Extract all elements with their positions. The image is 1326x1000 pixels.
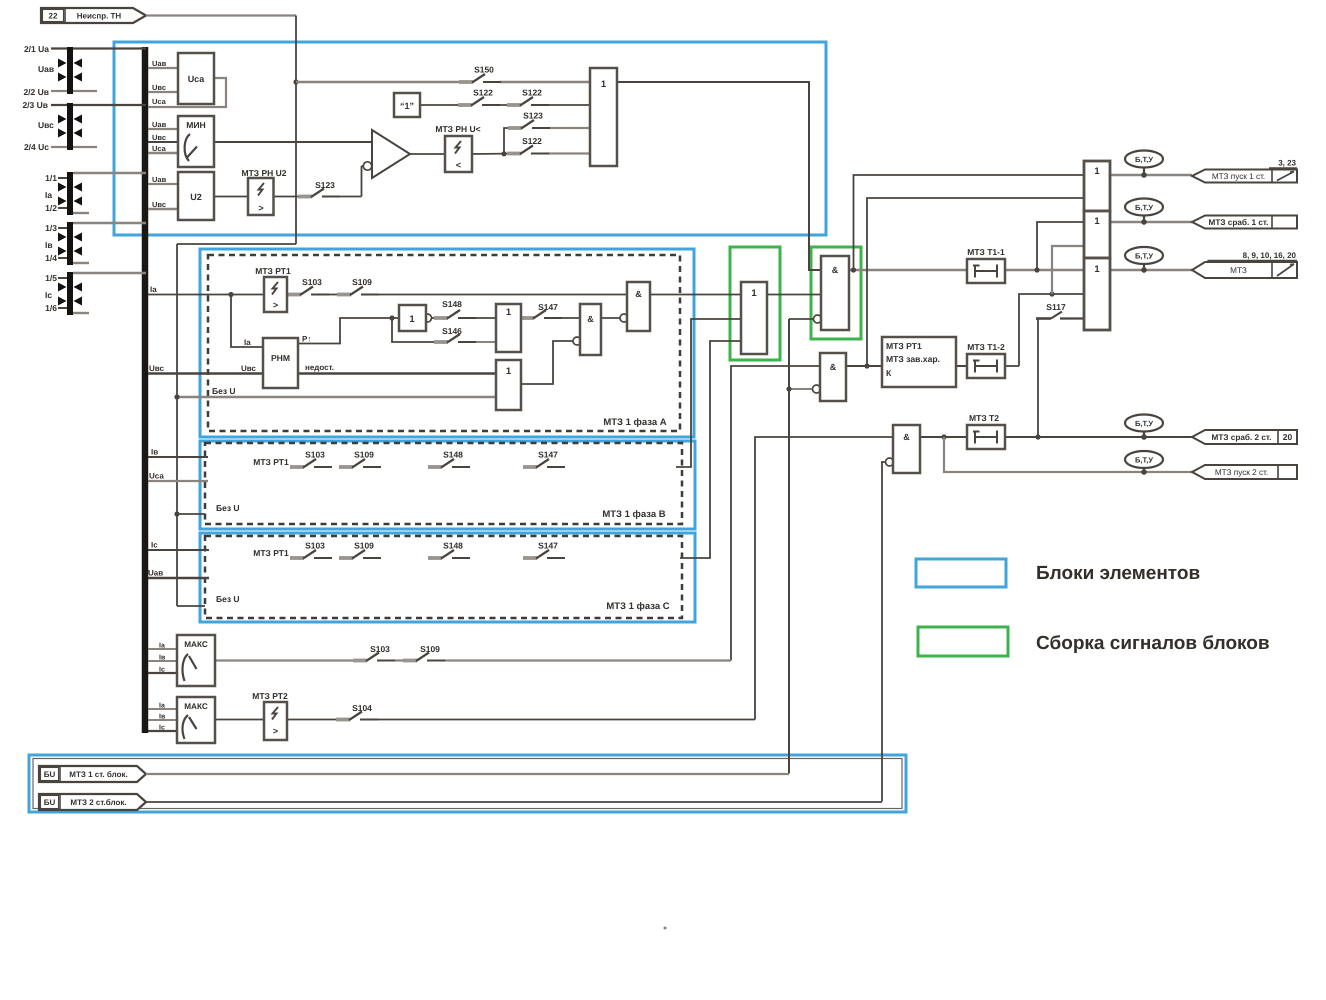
wire: Bez U line phase A: [177, 396, 496, 398]
AND gate DD2: [820, 353, 846, 401]
wire: Bez U stub phase B: [177, 513, 205, 515]
svg-text:Iа: Iа: [159, 643, 165, 650]
svg-text:К: К: [886, 368, 892, 378]
wire: branch up to S123: [504, 128, 521, 154]
svg-text:Сборка сигналов блоков: Сборка сигналов блоков: [1036, 633, 1270, 654]
svg-text:МТЗ: МТЗ: [1230, 266, 1247, 275]
switch S122 (third): [507, 136, 549, 154]
junction: Bez U tap phase B: [174, 511, 179, 516]
OR gate D3 cell2: [1084, 211, 1110, 258]
wire: vertical drop of Neispr.TN net x=296: [295, 16, 297, 245]
wire: OR DA2 output via S147 to AND DA4: [521, 317, 533, 319]
svg-text:U2: U2: [190, 192, 202, 202]
timer T1-2: [967, 354, 1005, 378]
svg-text:S147: S147: [538, 541, 558, 551]
signal oval B,T,U (MTZ): [1125, 247, 1163, 273]
wire: RT2 output via S104: [287, 719, 349, 721]
wire: Bez U stub phase C: [177, 605, 205, 607]
svg-text:Iа: Iа: [150, 285, 157, 294]
inverter circle DA1 output: [424, 314, 432, 322]
wire: blocking net 1 to DD1 inverting input: [789, 318, 814, 320]
wire: AND DD2 output through curve box and timer T1-2: [846, 365, 967, 367]
wire: Neispr.TN net to Bez-U rail: [177, 243, 296, 245]
svg-text:1: 1: [1094, 264, 1100, 275]
svg-text:МТЗ 1 ст. блок.: МТЗ 1 ст. блок.: [69, 770, 127, 779]
inverter circle DD3 input: [886, 458, 894, 466]
wire: U2 block to MTZ RN U2 relay: [214, 196, 248, 198]
wire: bus tap Ia to phase A: [148, 294, 300, 296]
wire: AND DD1 output to timer T1-1 and up to output OR: [849, 269, 967, 271]
switch S147 phase C: [523, 541, 565, 559]
wire: RT2/S104 line up to AND DD3: [755, 437, 893, 720]
wire: OR D1 output to AND DD1: [617, 82, 821, 270]
wire: output OR cell3 to flag MTZ: [1110, 269, 1192, 271]
AND gate DD3: [893, 425, 920, 473]
AND gate DA5: [627, 282, 650, 331]
wire: bus tap Uab to Uca-calc: [148, 67, 178, 69]
svg-text:Uвс: Uвс: [149, 364, 164, 373]
wire: MIN block output to amplifier A1: [214, 141, 372, 143]
switch S148 phase C: [428, 541, 470, 559]
svg-text:МТЗ пуск 1 ст.: МТЗ пуск 1 ст.: [1212, 172, 1265, 181]
block MTZ RT1 dependent characteristic: [882, 337, 956, 387]
wire: bus tap Ic phase C: [148, 549, 209, 551]
block frame: MTZ phase A block (blue): [200, 249, 694, 437]
svg-text:Iа: Iа: [159, 703, 165, 710]
inner gray frame of bottom block: [33, 759, 902, 809]
svg-text:S104: S104: [352, 703, 372, 713]
svg-text:МТЗ РТ1: МТЗ РТ1: [886, 341, 922, 351]
svg-text:МАКС: МАКС: [184, 702, 208, 711]
junction: blocking net 1 branch: [786, 386, 791, 391]
wire: big OR D2 output to AND DD1: [767, 294, 821, 296]
wire: NOT DA1 output via S148 to OR DA2: [431, 317, 447, 319]
svg-text:недост.: недост.: [305, 363, 334, 372]
svg-text:Iа: Iа: [45, 190, 52, 200]
OR gate D3 cell1: [1084, 161, 1110, 211]
svg-text:1/6: 1/6: [45, 303, 57, 313]
svg-text:Неиспр. ТН: Неиспр. ТН: [77, 12, 122, 21]
output flag MTZ pusk 1 st: [1192, 159, 1297, 183]
svg-text:2/3 Uв: 2/3 Uв: [22, 100, 48, 110]
wire: S117 riser: [1037, 319, 1039, 438]
svg-text:S150: S150: [474, 65, 494, 75]
OR gate DA2: [496, 304, 521, 352]
svg-text:Uса: Uса: [152, 97, 167, 106]
wire: branch up to output OR cell 2: [1037, 222, 1084, 270]
wire: blocking net 1 to DD2 inverting input: [789, 388, 813, 390]
svg-text:Б,Т,У: Б,Т,У: [1135, 455, 1153, 464]
svg-text:S146: S146: [442, 326, 462, 336]
junction: Ia branch to RNM: [228, 292, 233, 297]
junction: y294 rail branch: [1049, 291, 1054, 296]
switch S109 phase C: [339, 541, 381, 559]
wire: MAKS1 S103/S109 line up to AND DD2: [731, 366, 820, 661]
svg-text:Uав: Uав: [152, 120, 167, 129]
legend green box: [918, 627, 1008, 656]
wire: bus taps to U2-calc: [148, 183, 178, 185]
legend blue box: [916, 559, 1006, 587]
svg-text:Б,Т,У: Б,Т,У: [1135, 155, 1153, 164]
svg-text:МТЗ РТ1: МТЗ РТ1: [255, 266, 291, 276]
svg-text:Б,Т,У: Б,Т,У: [1135, 203, 1153, 212]
svg-text:S109: S109: [420, 644, 440, 654]
svg-text:МТЗ РТ1: МТЗ РТ1: [253, 548, 289, 558]
svg-text:2/2 Uв: 2/2 Uв: [23, 87, 49, 97]
signal oval B,T,U (pusk 2): [1125, 451, 1163, 475]
svg-text:Uса: Uса: [188, 74, 206, 84]
svg-text:20: 20: [1283, 432, 1293, 442]
junction: DD1 output branch: [851, 267, 856, 272]
switch S109 phase B: [339, 450, 381, 468]
switch S123 (lower): [298, 180, 340, 197]
svg-text:Uав: Uав: [152, 175, 167, 184]
svg-text:Iс: Iс: [45, 290, 52, 300]
input flag BU MTZ 2st block: [39, 794, 146, 810]
svg-text:Р↑: Р↑: [302, 335, 311, 344]
svg-text:БU: БU: [44, 770, 56, 779]
block MIN (min voltage selector): [178, 116, 214, 167]
wire: bus tap Ib phase B: [148, 456, 208, 458]
wire: MAKS1 output via S103,S109: [215, 659, 366, 661]
svg-text:МТЗ сраб. 1 ст.: МТЗ сраб. 1 ст.: [1209, 218, 1269, 227]
svg-text:S103: S103: [305, 450, 325, 460]
svg-text:S103: S103: [370, 644, 390, 654]
svg-text:Iв: Iв: [45, 240, 53, 250]
svg-text:S103: S103: [302, 277, 322, 287]
svg-text:МТЗ Т2: МТЗ Т2: [969, 413, 999, 423]
svg-text:&: &: [635, 289, 642, 299]
wire: bus tap Uab phase C: [148, 577, 209, 580]
OR gate D2 (phase collector): [741, 282, 767, 354]
junction: DD2 output branch: [864, 363, 869, 368]
svg-text:МТЗ 1 фаза В: МТЗ 1 фаза В: [602, 509, 665, 520]
output flag MTZ srab 1 st: [1192, 216, 1297, 229]
block frame: bottom blocking-inputs block (blue): [29, 755, 906, 812]
svg-text:S117: S117: [1046, 302, 1066, 312]
switch S148 phase B: [428, 450, 470, 468]
junction: Neispr.TN branch to S150 line: [293, 79, 298, 84]
OR gate D1 (top): [590, 68, 617, 166]
svg-text:МТЗ 2 ст.блок.: МТЗ 2 ст.блок.: [70, 798, 126, 807]
wire: S150 line from x296 to OR D1: [296, 81, 472, 84]
svg-text:1/1: 1/1: [45, 173, 57, 183]
switch S146: [434, 326, 476, 343]
junction: Bez U tap phase A: [174, 394, 179, 399]
svg-text:1: 1: [1094, 216, 1100, 227]
svg-text:S147: S147: [538, 302, 558, 312]
svg-text:МАКС: МАКС: [184, 640, 208, 649]
svg-text:S122: S122: [522, 136, 542, 146]
junction: T2 output to S117: [1035, 434, 1040, 439]
svg-text:Uав: Uав: [152, 59, 167, 68]
wire: RT1 output line through switches to OR D2: [328, 294, 350, 296]
OR gate DA3: [496, 360, 521, 410]
switch S103 phase A: [287, 277, 329, 295]
svg-text:S109: S109: [354, 450, 374, 460]
svg-text:22: 22: [49, 12, 58, 21]
stray mark: [664, 927, 667, 930]
switch S147 phase B: [523, 450, 565, 468]
signal oval B,T,U (pusk 1): [1125, 151, 1163, 178]
input flag BU MTZ 1st block: [39, 766, 146, 782]
wire: const-1 to OR D1 via S122,S122: [420, 104, 471, 106]
switch S104: [336, 703, 378, 720]
const logic 1 box: [394, 93, 420, 117]
signal oval B,T,U (srab 2): [1125, 415, 1163, 440]
block U2 calculator: [178, 172, 214, 220]
wire: blocking net 2 horizontal: [146, 801, 882, 803]
wire: Uca-calc output loop back to bus: [148, 78, 226, 107]
wire: branch down to MTZ pusk 2 st output: [944, 437, 1193, 472]
wire: Bez-U vertical rail x=177: [176, 244, 178, 606]
wire: bus tap Ubc to Uca-calc: [148, 91, 178, 93]
svg-text:Uвс: Uвс: [152, 200, 166, 209]
NOT gate DA1: [399, 305, 426, 331]
wire: timer T1-2 output up to y294 rail: [1005, 365, 1019, 367]
svg-text:Uвс: Uвс: [241, 364, 256, 373]
switch S122 (first): [458, 88, 500, 106]
wire: AND DA4 output to AND DA5 inverting input: [601, 317, 620, 319]
svg-text:Uса: Uса: [149, 472, 164, 481]
current transformer CT3: [58, 272, 146, 315]
svg-text:Iв: Iв: [159, 655, 166, 662]
output flag MTZ: [1192, 251, 1297, 278]
wire: blocking net 1 vertical x789: [788, 319, 790, 774]
wire: phase C exit to big OR D2: [680, 341, 741, 558]
svg-text:S122: S122: [473, 88, 493, 98]
switch S122 (second): [507, 88, 549, 106]
svg-text:МТЗ РН U<: МТЗ РН U<: [435, 124, 480, 134]
wire: bus taps to MAKS1: [148, 648, 177, 650]
svg-text:&: &: [832, 265, 839, 275]
svg-text:>: >: [273, 300, 278, 310]
wire: timer T1-1 output to output OR cell 3: [1005, 269, 1084, 271]
svg-text:>: >: [273, 726, 278, 736]
block RNM (power direction relay): [263, 338, 298, 388]
vertical input bus: [142, 47, 149, 733]
switch S150: [459, 65, 501, 83]
wire: AND DD2 output rail to output OR cell 1: [867, 198, 1084, 366]
svg-text:S122: S122: [522, 88, 542, 98]
svg-text:“1”: “1”: [400, 101, 414, 111]
svg-text:S103: S103: [305, 541, 325, 551]
wire: bus taps to MIN block: [148, 128, 178, 130]
svg-text:Iв: Iв: [159, 714, 166, 721]
voltage transformer VT1 (Uab winding): [51, 47, 146, 94]
block frame: MTZ phase B block (blue): [200, 441, 695, 529]
switch S148 phase A: [434, 299, 476, 319]
wire: amplifier A1 output to MTZ RN U-less relay: [410, 153, 445, 155]
svg-text:1/3: 1/3: [45, 223, 57, 233]
wire: OR DA3 output up to DA4 inverting input: [521, 341, 573, 384]
signal-assembly frame 1 (green): [730, 247, 780, 360]
svg-text:&: &: [830, 362, 837, 372]
switch S103 (MAKS1): [353, 644, 395, 661]
wire: S146 branch: [392, 318, 447, 342]
svg-text:1: 1: [601, 79, 607, 90]
svg-text:МТЗ пуск 2 ст.: МТЗ пуск 2 ст.: [1215, 468, 1268, 477]
block frame: MTZ phase C block (blue): [200, 533, 695, 622]
svg-text:МТЗ РН U2: МТЗ РН U2: [242, 168, 287, 178]
svg-text:S109: S109: [352, 277, 372, 287]
wire: blocking net 2 vertical x882 to DD3 inverting input: [882, 462, 886, 802]
wire: MAKS2 output to RT2: [215, 719, 264, 721]
OR gate D3 cell3: [1084, 258, 1110, 330]
voltage transformer VT2 (Ubc winding): [51, 103, 146, 150]
wire: MTZ RN U2 relay via S123 to A1 inverting input: [274, 196, 312, 198]
AND gate DA4: [580, 304, 601, 355]
switch S117: [1036, 302, 1084, 319]
svg-text:8, 9, 10, 16, 20: 8, 9, 10, 16, 20: [1243, 251, 1297, 260]
wire: bus tap Uca phase B: [148, 480, 208, 482]
wire: phase B exit to big OR D2: [676, 319, 741, 467]
svg-text:Без U: Без U: [216, 594, 240, 604]
svg-text:2/1 Uа: 2/1 Uа: [24, 44, 49, 54]
svg-text:МТЗ 1 фаза А: МТЗ 1 фаза А: [603, 417, 666, 428]
signal-assembly frame 2 (green): [811, 247, 861, 339]
svg-text:1: 1: [1094, 166, 1100, 177]
svg-text:РНМ: РНМ: [271, 353, 290, 363]
wire: output OR cell1 to flag MTZ pusk 1 st: [1110, 174, 1192, 176]
junction: node after RN U-less relay: [501, 151, 506, 156]
svg-text:1/2: 1/2: [45, 203, 57, 213]
svg-text:Uвс: Uвс: [152, 83, 166, 92]
svg-text:Uвс: Uвс: [152, 133, 166, 142]
svg-text:Iс: Iс: [159, 725, 165, 732]
op-block MTZ RN U-less relay: [445, 136, 472, 172]
switch S147 phase A: [520, 302, 562, 319]
amplifier A1 (comparator triangle): [372, 130, 410, 178]
current transformer CT2: [58, 222, 146, 265]
svg-text:Uвс: Uвс: [38, 120, 54, 130]
svg-text:3, 23: 3, 23: [1278, 159, 1296, 168]
current transformer CT1: [58, 172, 146, 215]
svg-text:S148: S148: [443, 450, 463, 460]
svg-text:Без U: Без U: [216, 503, 240, 513]
svg-text:Iс: Iс: [159, 667, 165, 674]
svg-text:МТЗ зав.хар.: МТЗ зав.хар.: [886, 354, 940, 364]
output flag MTZ pusk 2 st: [1192, 465, 1297, 479]
svg-text:БU: БU: [44, 798, 56, 807]
svg-text:S109: S109: [354, 541, 374, 551]
wire: flag 22 output to corner: [146, 14, 296, 16]
svg-text:2/4 Uс: 2/4 Uс: [24, 142, 49, 152]
svg-text:1/4: 1/4: [45, 253, 57, 263]
svg-text:МТЗ сраб. 2 ст.: МТЗ сраб. 2 ст.: [1212, 433, 1272, 442]
svg-text:МТЗ Т1-1: МТЗ Т1-1: [967, 247, 1005, 257]
block Uca calculator: [178, 53, 214, 104]
block frame: upper voltage-logic block (blue): [114, 42, 826, 235]
timer T1-1: [967, 259, 1005, 283]
svg-text:S147: S147: [538, 450, 558, 460]
wire: bus taps to MAKS2: [148, 708, 177, 710]
svg-text:1: 1: [409, 314, 415, 325]
svg-text:S123: S123: [523, 111, 543, 121]
svg-text:S148: S148: [442, 299, 462, 309]
svg-text:Iа: Iа: [244, 338, 251, 347]
svg-text:МТЗ РТ1: МТЗ РТ1: [253, 457, 289, 467]
wire: RN U-less relay output node: [472, 153, 520, 156]
svg-text:&: &: [587, 314, 594, 324]
svg-text:МТЗ РТ2: МТЗ РТ2: [252, 691, 288, 701]
svg-text:МТЗ 1 фаза С: МТЗ 1 фаза С: [606, 601, 669, 612]
wire: blocking net 1 horizontal: [146, 773, 789, 775]
inverter circle DD2 input: [813, 385, 821, 393]
wire: AND DD3 output to timer T2 and output flags: [920, 436, 967, 438]
svg-text:1: 1: [506, 366, 512, 377]
svg-text:Uав: Uав: [38, 64, 54, 74]
svg-text:<: <: [456, 160, 461, 170]
svg-text:1: 1: [506, 307, 512, 318]
output flag MTZ srab 2 st: [1192, 430, 1297, 444]
op-block MTZ RT2: [264, 702, 287, 740]
svg-text:Iс: Iс: [151, 541, 158, 550]
wire: bus tap Ubc to RNM / nedost line to OR DA3: [148, 372, 496, 374]
switch S123 (upper): [508, 111, 550, 129]
block MAKS2 (max current selector): [177, 697, 215, 743]
dashed box: MTZ 1 phase C: [205, 536, 682, 618]
svg-text:>: >: [258, 203, 263, 213]
dashed box: MTZ 1 phase A: [208, 255, 680, 431]
junction: DD3 output branch to pusk-2: [941, 434, 946, 439]
wire: Ia branch down into RNM: [231, 295, 263, 348]
svg-text:1/5: 1/5: [45, 273, 57, 283]
signal oval B,T,U (srab 1): [1125, 199, 1163, 225]
svg-text:S123: S123: [315, 180, 335, 190]
op-block MTZ RN U2 relay: [248, 178, 274, 215]
svg-text:Б,Т,У: Б,Т,У: [1135, 419, 1153, 428]
svg-text:Без U: Без U: [212, 386, 236, 396]
svg-text:Б,Т,У: Б,Т,У: [1135, 251, 1153, 260]
svg-text:Iв: Iв: [151, 448, 158, 457]
AND gate DD1: [821, 256, 849, 330]
junction: branch to S146: [389, 315, 394, 320]
input flag 22 Neispr.TN: [41, 8, 146, 23]
svg-text:Uав: Uав: [148, 569, 163, 578]
switch S109 (MAKS1): [403, 644, 445, 661]
svg-text:S148: S148: [443, 541, 463, 551]
dashed box: MTZ 1 phase B: [205, 443, 682, 524]
wire: branch to output OR cell 2 second input: [1052, 246, 1084, 294]
inverter circle DA4 input: [573, 337, 581, 345]
wire: output OR cell2 to flag MTZ srab 1 st: [1110, 221, 1192, 223]
inverter circle DA5 input: [620, 314, 628, 322]
svg-text:Блоки элементов: Блоки элементов: [1036, 563, 1200, 584]
inverter circle DD1 input: [814, 315, 822, 323]
svg-text:Uса: Uса: [152, 144, 167, 153]
junction: T1-1 output branch: [1034, 267, 1039, 272]
switch S103 phase C: [290, 541, 332, 559]
svg-text:МИН: МИН: [186, 120, 206, 130]
wire: RNM P-output up to NOT DA1 input: [298, 318, 399, 344]
switch S103 phase B: [290, 450, 332, 468]
svg-text:МТЗ Т1-2: МТЗ Т1-2: [967, 342, 1005, 352]
op-block MTZ RT1 phase A: [264, 277, 287, 312]
svg-text:1: 1: [751, 288, 757, 299]
block MAKS1 (max current selector): [177, 635, 215, 686]
switch S109 phase A: [337, 277, 379, 295]
timer T2: [967, 425, 1005, 449]
svg-text:&: &: [903, 432, 910, 442]
